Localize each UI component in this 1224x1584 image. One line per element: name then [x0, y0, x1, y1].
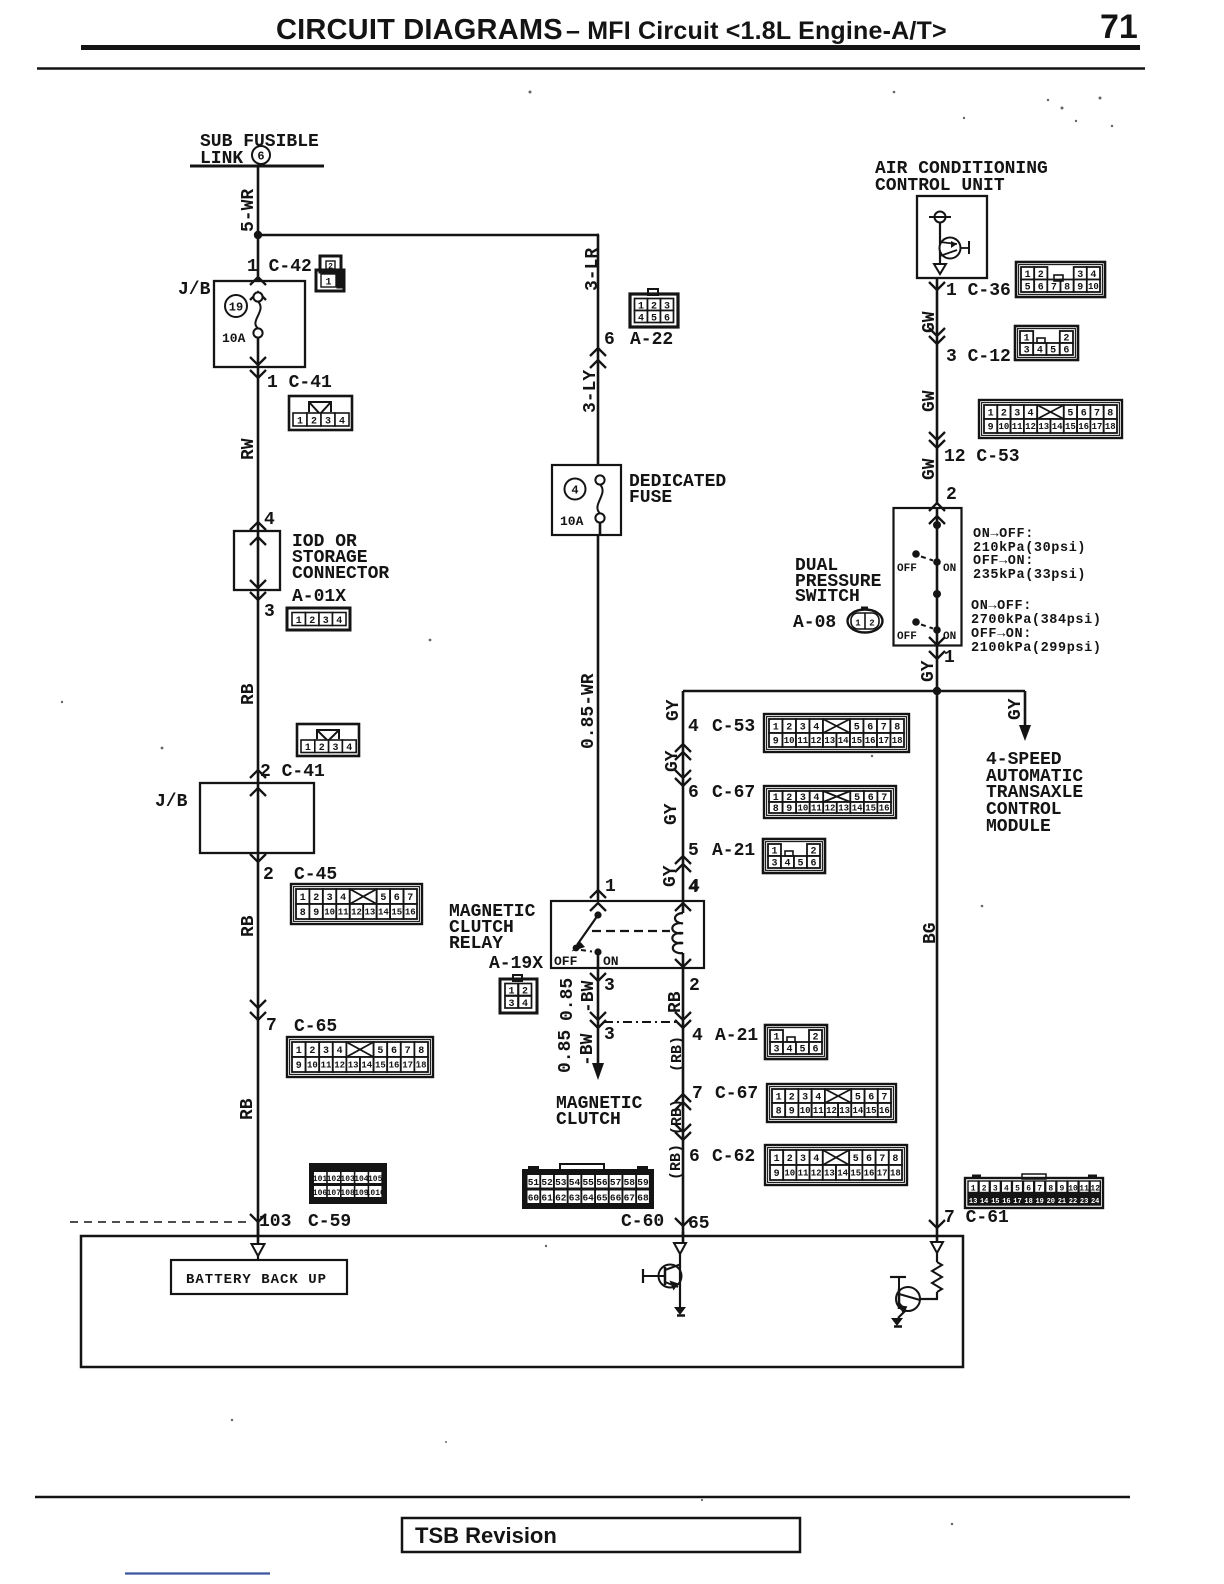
- svg-text:CIRCUIT DIAGRAMS: CIRCUIT DIAGRAMS: [276, 14, 563, 46]
- svg-text:101: 101: [313, 1175, 328, 1184]
- svg-text:7 C-61: 7 C-61: [944, 1208, 1009, 1228]
- svg-text:8: 8: [776, 1107, 782, 1118]
- svg-text:17: 17: [1092, 422, 1103, 432]
- svg-text:2 C-41: 2 C-41: [260, 762, 325, 782]
- svg-text:RB: RB: [239, 683, 259, 705]
- svg-text:11: 11: [813, 1106, 824, 1116]
- svg-text:18: 18: [1024, 1198, 1032, 1206]
- svg-text:6: 6: [391, 1046, 397, 1057]
- svg-text:105: 105: [368, 1175, 383, 1184]
- svg-text:2: 2: [309, 616, 315, 627]
- svg-text:13: 13: [348, 1061, 359, 1071]
- svg-text:53: 53: [555, 1177, 567, 1188]
- svg-text:C-67: C-67: [715, 1084, 758, 1104]
- svg-text:9: 9: [774, 1169, 780, 1180]
- arrow at switch bottom: [929, 637, 945, 645]
- arrow out of J/B 2: [250, 854, 266, 862]
- svg-text:103: 103: [259, 1212, 291, 1232]
- svg-text:3: 3: [508, 999, 514, 1010]
- svg-text:106: 106: [313, 1189, 328, 1198]
- connector C-62 pin grid: [765, 1145, 907, 1185]
- svg-text:6: 6: [1081, 409, 1087, 420]
- svg-text:12: 12: [825, 804, 836, 814]
- svg-text:2: 2: [309, 1046, 315, 1057]
- svg-text:4: 4: [522, 999, 528, 1010]
- svg-text:16: 16: [389, 1061, 400, 1071]
- arrow at pin 65: [675, 1218, 691, 1226]
- arrow at J/B top: [250, 292, 266, 300]
- svg-text:6: 6: [689, 1147, 700, 1167]
- svg-text:1: 1: [297, 417, 303, 428]
- lower switch ON dot: [933, 626, 941, 634]
- svg-text:C-65: C-65: [294, 1017, 337, 1037]
- svg-text:55: 55: [582, 1177, 594, 1188]
- svg-text:71: 71: [1100, 8, 1138, 46]
- svg-text:3: 3: [604, 976, 615, 996]
- svg-text:2: 2: [263, 865, 274, 885]
- svg-text:10: 10: [1068, 1185, 1078, 1194]
- svg-text:62: 62: [555, 1193, 567, 1204]
- svg-text:6: 6: [1026, 1185, 1031, 1194]
- svg-text:5-WR: 5-WR: [239, 189, 259, 232]
- svg-text:14: 14: [852, 1106, 863, 1116]
- circled 19 fuse number: [225, 295, 247, 317]
- svg-text:7: 7: [879, 1154, 885, 1165]
- wire through J/B 2: [257, 783, 260, 853]
- svg-text:5: 5: [854, 723, 860, 734]
- svg-text:4: 4: [1027, 409, 1033, 420]
- svg-text:7: 7: [405, 1046, 411, 1057]
- arrow to magnetic clutch: [592, 1063, 604, 1080]
- svg-text:7: 7: [266, 1016, 277, 1036]
- svg-text:1: 1: [300, 893, 306, 904]
- svg-text:9: 9: [789, 1107, 795, 1118]
- svg-text:2100kPa(299psi): 2100kPa(299psi): [971, 641, 1102, 656]
- svg-text:5: 5: [1025, 282, 1031, 293]
- svg-text:14: 14: [980, 1198, 988, 1206]
- connector A-21 mid pin grid: [763, 839, 825, 873]
- svg-text:103: 103: [340, 1175, 355, 1184]
- wire GY stub to transaxle module: [1024, 691, 1027, 727]
- svg-text:12: 12: [1090, 1185, 1100, 1194]
- svg-text:1010: 1010: [366, 1189, 385, 1198]
- arrows above 6 C-67: [675, 770, 691, 778]
- svg-text:3: 3: [1024, 346, 1030, 357]
- header thin rule: [37, 67, 1145, 69]
- svg-text:13: 13: [364, 908, 375, 918]
- svg-text:ON: ON: [603, 954, 619, 969]
- svg-text:8: 8: [892, 1154, 898, 1165]
- svg-text:11: 11: [811, 804, 822, 814]
- svg-text:4: 4: [1004, 1185, 1009, 1194]
- connector A-22 pin grid: [648, 289, 658, 295]
- svg-text:59: 59: [637, 1177, 649, 1188]
- svg-text:10: 10: [784, 1169, 795, 1179]
- circled 4 dedicated fuse number: [565, 479, 586, 500]
- svg-text:15: 15: [991, 1198, 999, 1206]
- svg-text:52: 52: [541, 1177, 553, 1188]
- svg-text:SWITCH: SWITCH: [795, 587, 860, 607]
- svg-text:GW: GW: [920, 390, 940, 412]
- fuse 10A in J/B: [253, 292, 262, 301]
- svg-text:58: 58: [624, 1177, 636, 1188]
- svg-text:5: 5: [1050, 346, 1056, 357]
- svg-text:1: 1: [774, 1154, 780, 1165]
- scan noise specks: [529, 91, 532, 94]
- connector C-41 icon 2 with M: [297, 724, 359, 756]
- circled 6 fusible link number: [252, 146, 270, 164]
- svg-text:5: 5: [651, 313, 657, 324]
- dual pressure switch box A-08: [894, 508, 962, 646]
- wire horizontal 5-WR branch to 3-LR column: [258, 234, 598, 237]
- svg-text:OFF: OFF: [897, 563, 917, 575]
- connector C-42 icon: [320, 256, 341, 272]
- svg-text:4: 4: [1037, 346, 1043, 357]
- svg-text:2: 2: [786, 723, 792, 734]
- svg-text:CLUTCH: CLUTCH: [556, 1110, 621, 1130]
- arrow into dual pressure switch: [929, 503, 945, 511]
- svg-text:51: 51: [528, 1177, 540, 1188]
- svg-text:108: 108: [340, 1189, 355, 1198]
- svg-text:12: 12: [1025, 422, 1036, 432]
- svg-text:5: 5: [377, 1046, 383, 1057]
- svg-text:12: 12: [826, 1106, 837, 1116]
- svg-text:16: 16: [405, 908, 416, 918]
- svg-text:67: 67: [624, 1193, 636, 1204]
- svg-text:A-08: A-08: [793, 613, 836, 633]
- svg-text:4: 4: [784, 859, 790, 870]
- connector C-60 pin grid: [523, 1170, 653, 1208]
- svg-text:63: 63: [569, 1193, 581, 1204]
- svg-text:11: 11: [797, 736, 808, 746]
- engine control module box: [81, 1236, 963, 1367]
- svg-text:(RB): (RB): [669, 1036, 686, 1072]
- svg-text:6: 6: [867, 723, 873, 734]
- arrow below relay pin 3: [590, 973, 606, 981]
- svg-text:5: 5: [853, 1154, 859, 1165]
- svg-text:17: 17: [402, 1061, 413, 1071]
- connector C-65 pin grid: [287, 1037, 433, 1077]
- svg-text:2: 2: [311, 417, 317, 428]
- pin 65 input triangle: [682, 1232, 685, 1243]
- svg-text:10: 10: [1088, 282, 1099, 292]
- svg-text:RB: RB: [239, 915, 259, 937]
- wire GY bus down to C-61: [936, 691, 939, 1232]
- svg-text:4: 4: [638, 313, 644, 324]
- svg-text:7: 7: [1037, 1185, 1042, 1194]
- svg-text:3: 3: [800, 1154, 806, 1165]
- svg-text:10: 10: [784, 736, 795, 746]
- svg-text:102: 102: [327, 1175, 342, 1184]
- TSB Revision box: [402, 1518, 800, 1552]
- arrow out of relay pin 2: [675, 959, 691, 967]
- svg-text:5: 5: [1015, 1185, 1020, 1194]
- svg-text:65: 65: [596, 1193, 608, 1204]
- svg-text:3: 3: [327, 893, 333, 904]
- svg-text:TSB Revision: TSB Revision: [415, 1523, 557, 1548]
- svg-text:4: 4: [571, 484, 578, 498]
- relay pin 3 wire ON down: [597, 952, 600, 968]
- svg-text:8: 8: [1064, 282, 1070, 293]
- svg-text:235kPa(33psi): 235kPa(33psi): [973, 568, 1086, 583]
- switch node dot 2: [933, 590, 941, 598]
- IOD OR STORAGE CONNECTOR box: [234, 531, 280, 590]
- arrow into J/B: [250, 277, 266, 285]
- svg-text:10: 10: [998, 422, 1009, 432]
- svg-text:9: 9: [773, 737, 779, 748]
- svg-text:10: 10: [324, 908, 335, 918]
- svg-text:15: 15: [850, 1169, 861, 1179]
- svg-text:8: 8: [1048, 1185, 1053, 1194]
- svg-text:14: 14: [378, 908, 389, 918]
- pin 7 input triangle: [936, 1232, 939, 1242]
- svg-text:5: 5: [855, 1093, 861, 1104]
- svg-text:2: 2: [982, 1185, 987, 1194]
- svg-text:RELAY: RELAY: [449, 934, 503, 954]
- connector C-53 right pin grid: [979, 400, 1122, 438]
- relay OFF contact dot: [573, 945, 580, 952]
- svg-text:8: 8: [300, 908, 306, 919]
- connector C-59 dark pin grid: [310, 1164, 386, 1203]
- arrows into C-12: [929, 328, 945, 336]
- svg-text:4: 4: [692, 1026, 703, 1046]
- svg-text:12: 12: [334, 1061, 345, 1071]
- svg-text:15: 15: [865, 804, 876, 814]
- arrow under switch: [929, 651, 945, 659]
- connector C-53 mid pin grid: [764, 714, 909, 752]
- svg-text:104: 104: [354, 1175, 369, 1184]
- svg-text:4: 4: [786, 1045, 792, 1056]
- junction dot node at 5-WR split: [254, 231, 262, 239]
- svg-text:0.85: 0.85: [558, 978, 578, 1021]
- svg-text:3: 3: [264, 602, 275, 622]
- svg-text:15: 15: [851, 736, 862, 746]
- battery backup input triangle: [257, 1222, 260, 1244]
- svg-text:3: 3: [771, 859, 777, 870]
- svg-text:6: 6: [688, 783, 699, 803]
- svg-text:OFF: OFF: [897, 631, 917, 643]
- AC unit thermo sensor symbol: [935, 212, 946, 223]
- svg-text:15: 15: [1065, 422, 1076, 432]
- svg-text:6: 6: [866, 1154, 872, 1165]
- svg-text:RB: RB: [238, 1098, 258, 1120]
- arrows above 6 C-62: [675, 1124, 691, 1132]
- svg-text:14: 14: [838, 736, 849, 746]
- wire GW AC unit to C-12: [936, 278, 939, 505]
- dedicated fuse symbol: [595, 475, 604, 484]
- svg-text:64: 64: [582, 1193, 594, 1204]
- svg-text:1: 1: [325, 278, 331, 289]
- svg-text:13: 13: [824, 1169, 835, 1179]
- arrows above 7 C-67: [675, 1094, 691, 1102]
- svg-text:14: 14: [852, 804, 863, 814]
- svg-text:7: 7: [692, 1084, 703, 1104]
- wire 5-WR from sub fusible link down to J/B: [257, 166, 260, 281]
- svg-text:2: 2: [689, 976, 700, 996]
- wire RB from J/B2 to C-65: [257, 853, 260, 1236]
- svg-text:3-LR: 3-LR: [583, 248, 603, 291]
- svg-text:2: 2: [787, 1154, 793, 1165]
- wire GY from horizontal GY bus down to relay pin 4: [682, 691, 685, 901]
- svg-text:11: 11: [338, 908, 349, 918]
- relay dashed link to coil: [592, 930, 670, 932]
- svg-text:19: 19: [1035, 1198, 1043, 1206]
- svg-text:6: 6: [257, 150, 264, 164]
- bus bar under sub fusible link: [190, 165, 324, 168]
- wire RB relay pin 2 down to C-60 pin 65: [682, 968, 685, 1236]
- svg-text:-BW: -BW: [578, 1033, 598, 1066]
- arrows on 3-LY wire: [590, 348, 606, 356]
- svg-text:14: 14: [837, 1169, 848, 1179]
- wire through dual pressure switch: [936, 508, 939, 646]
- svg-text:17: 17: [877, 1169, 888, 1179]
- dedicated fuse box: [552, 465, 621, 535]
- svg-text:3: 3: [1014, 409, 1020, 420]
- svg-text:5: 5: [380, 893, 386, 904]
- magnetic clutch relay box A-19X: [551, 901, 704, 968]
- svg-text:7: 7: [1094, 409, 1100, 420]
- transistor Q1: [659, 1265, 682, 1288]
- svg-text:4: 4: [688, 717, 699, 737]
- svg-text:12: 12: [811, 1169, 822, 1179]
- svg-text:RW: RW: [239, 438, 259, 460]
- svg-text:16: 16: [879, 1106, 890, 1116]
- transistor Q2: [896, 1287, 920, 1311]
- arrows into C-65: [250, 1000, 266, 1008]
- svg-text:9: 9: [313, 908, 319, 919]
- svg-text:8: 8: [1107, 409, 1113, 420]
- svg-text:3: 3: [773, 1045, 779, 1056]
- svg-text:16: 16: [879, 804, 890, 814]
- svg-text:15: 15: [866, 1106, 877, 1116]
- svg-text:1: 1: [773, 723, 779, 734]
- svg-text:8: 8: [773, 804, 779, 815]
- svg-text:13: 13: [1038, 422, 1049, 432]
- svg-text:1: 1: [305, 743, 311, 754]
- wire RW from C-41 down to IOD connector: [257, 367, 260, 531]
- svg-text:16: 16: [1078, 422, 1089, 432]
- svg-text:6: 6: [1038, 282, 1044, 293]
- svg-text:18: 18: [892, 736, 903, 746]
- connector C-36 pin grid: [1016, 262, 1105, 297]
- wire RB from IOD to J/B 2: [257, 590, 260, 783]
- connector C-41 icon with M: [289, 396, 352, 430]
- svg-text:3: 3: [802, 1093, 808, 1104]
- svg-text:19: 19: [229, 301, 243, 315]
- svg-text:3: 3: [993, 1185, 998, 1194]
- svg-text:3-LY: 3-LY: [581, 370, 601, 413]
- wire triangle to battery backup box: [257, 1256, 259, 1261]
- svg-text:GY: GY: [664, 699, 684, 721]
- GY bus horizontal wire: [683, 690, 1025, 693]
- svg-text:J/B: J/B: [155, 792, 188, 812]
- svg-text:3: 3: [604, 1025, 615, 1045]
- svg-text:GY: GY: [662, 803, 682, 825]
- svg-text:OFF→ON:: OFF→ON:: [973, 554, 1034, 569]
- svg-text:57: 57: [610, 1177, 622, 1188]
- svg-text:2: 2: [946, 485, 957, 505]
- svg-text:20: 20: [1047, 1198, 1055, 1206]
- svg-text:11: 11: [1079, 1185, 1089, 1194]
- svg-text:2: 2: [869, 619, 874, 629]
- svg-text:6: 6: [604, 330, 615, 350]
- svg-text:A-22: A-22: [630, 330, 673, 350]
- svg-text:ON→OFF:: ON→OFF:: [973, 527, 1034, 542]
- svg-text:ON: ON: [943, 563, 956, 575]
- svg-text:0.85: 0.85: [556, 1030, 576, 1073]
- svg-text:9: 9: [988, 423, 994, 434]
- arrow inside switch top: [929, 516, 945, 524]
- relay switch dashes OFF to ON: [581, 950, 592, 952]
- bottom page rule: [35, 1496, 1130, 1498]
- svg-text:A-21: A-21: [715, 1026, 758, 1046]
- svg-text:1 C-36: 1 C-36: [946, 281, 1011, 301]
- relay switch common dot: [594, 911, 601, 918]
- svg-text:60: 60: [528, 1193, 540, 1204]
- svg-text:1: 1: [971, 1185, 976, 1194]
- svg-text:16: 16: [864, 1169, 875, 1179]
- svg-text:15: 15: [375, 1061, 386, 1071]
- svg-text:1: 1: [988, 409, 994, 420]
- svg-text:7: 7: [1051, 282, 1057, 293]
- svg-text:12: 12: [811, 736, 822, 746]
- svg-text:4: 4: [336, 616, 342, 627]
- air conditioning control unit box: [917, 196, 987, 278]
- wire resistor to transistor Q2 collector: [936, 1292, 938, 1299]
- arrow out of AC unit: [929, 282, 945, 290]
- wire 0.85-WR from dedicated fuse to magnetic clutch relay: [599, 523, 602, 535]
- svg-text:11: 11: [1012, 422, 1023, 432]
- arrow at battery backup wire: [250, 1214, 266, 1222]
- connector A-21 right pin grid: [765, 1025, 827, 1059]
- svg-text:4: 4: [813, 1154, 819, 1165]
- svg-text:2: 2: [1001, 409, 1007, 420]
- svg-text:3: 3: [332, 743, 338, 754]
- svg-text:13: 13: [824, 736, 835, 746]
- svg-text:5: 5: [797, 859, 803, 870]
- svg-text:1 C-41: 1 C-41: [267, 373, 332, 393]
- svg-text:61: 61: [541, 1193, 553, 1204]
- upper switch OFF dot: [912, 550, 920, 558]
- svg-text:CONNECTOR: CONNECTOR: [292, 564, 389, 584]
- svg-text:A-21: A-21: [712, 841, 755, 861]
- svg-text:7: 7: [881, 723, 887, 734]
- connector C-67 mid pin grid: [764, 786, 896, 818]
- svg-text:3: 3: [325, 417, 331, 428]
- svg-text:107: 107: [327, 1189, 342, 1198]
- svg-text:18: 18: [1105, 422, 1116, 432]
- svg-text:A-01X: A-01X: [292, 587, 346, 607]
- transistor Q1 emitter to ground: [674, 1307, 686, 1315]
- AC unit output triangle: [934, 264, 946, 274]
- svg-text:3: 3: [323, 1046, 329, 1057]
- arrows out of IOD connector: [250, 580, 266, 588]
- svg-text:10A: 10A: [222, 331, 246, 346]
- svg-text:(RB): (RB): [668, 1144, 685, 1180]
- svg-text:C-45: C-45: [294, 865, 337, 885]
- connector C-67 right pin grid: [767, 1084, 896, 1122]
- relay switch arm to OFF: [577, 915, 598, 945]
- svg-text:22: 22: [1069, 1198, 1077, 1206]
- junction dot GY bus: [933, 687, 941, 695]
- svg-text:4: 4: [339, 417, 345, 428]
- svg-text:56: 56: [596, 1177, 608, 1188]
- svg-text:C-59: C-59: [308, 1212, 351, 1232]
- svg-text:1: 1: [944, 648, 955, 668]
- svg-text:8: 8: [418, 1046, 424, 1057]
- svg-text:15: 15: [391, 908, 402, 918]
- arrows at clutch branch point: [590, 1012, 606, 1020]
